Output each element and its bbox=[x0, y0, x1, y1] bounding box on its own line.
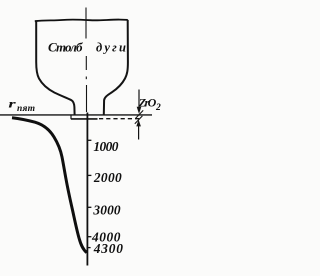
svg-text:2: 2 bbox=[155, 103, 161, 113]
svg-text:4300: 4300 bbox=[93, 241, 123, 256]
svg-text:r: r bbox=[8, 98, 16, 111]
svg-text:пят: пят bbox=[17, 104, 35, 114]
svg-text:Столб: Столб bbox=[48, 40, 83, 55]
svg-text:дуги: дуги bbox=[96, 41, 126, 55]
svg-text:1000: 1000 bbox=[93, 139, 118, 154]
svg-text:2000: 2000 bbox=[93, 170, 122, 185]
svg-text:3000: 3000 bbox=[92, 202, 120, 217]
svg-text:ZrO: ZrO bbox=[138, 96, 157, 110]
